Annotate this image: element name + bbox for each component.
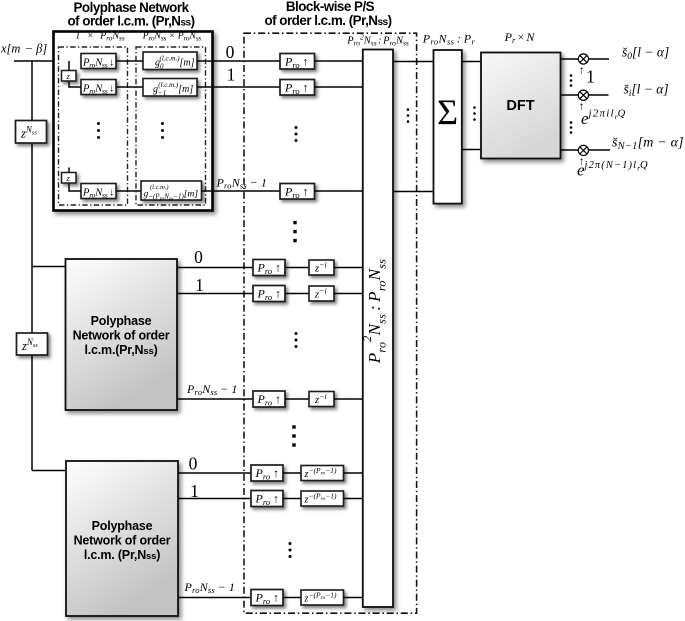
wire: net2 out row2: [177, 398, 253, 400]
decimator ProNss box row 0: [81, 54, 116, 70]
svg-text:of order l.c.m. (Pr,Nss): of order l.c.m. (Pr,Nss): [67, 14, 194, 29]
delay z^-(Pro-1) net3 row1: [301, 491, 344, 506]
dashed sub-box left (delay/decimator chain): [59, 47, 128, 205]
wire: upsampler row0 to P/S: [315, 60, 363, 62]
svg-text:ProNss− 1: ProNss− 1: [184, 580, 236, 595]
filter g0 box: [143, 52, 197, 71]
svg-text:1: 1: [586, 67, 595, 87]
svg-text:1: 1: [195, 275, 204, 295]
delay z^-i net2 row0: [309, 260, 334, 275]
svg-text:Pr×N: Pr×N: [504, 30, 536, 45]
dots: inside net1 right filters: [161, 122, 164, 139]
wire: net1 out row2 to upsampler: [202, 190, 281, 192]
dots: between net1 and net2 rows: [293, 221, 296, 242]
wire: net2 ups to delay row0: [285, 267, 309, 269]
upsampler Pro box net1 row0: [280, 54, 315, 71]
delay z^Nss box 2: [17, 333, 48, 355]
svg-text:1: 1: [190, 481, 199, 501]
svg-text:s̆0[l − α]: s̆0[l − α]: [622, 45, 669, 63]
wire: net1 out row1 to upsampler: [197, 86, 280, 88]
multiplier otimes row1: [578, 90, 588, 100]
upsampler Pro net2 row0: [253, 260, 285, 277]
delay z^Nss box 1: [16, 121, 47, 144]
wire: net2 out row1: [177, 293, 253, 295]
delay z box (row 1): [62, 71, 77, 82]
wire: upsampler row2 to P/S: [315, 190, 363, 192]
decimator ProNss box row 2: [81, 184, 116, 200]
upsampler Pro net3 row1: [251, 491, 283, 508]
wire: upsampler row1 to P/S: [315, 86, 363, 88]
wire: row 2 decimator to filter g-last: [116, 190, 141, 192]
wire: net3 delay to P/S row0: [344, 472, 363, 474]
wire: DFT out row1: [561, 94, 579, 96]
svg-text:0: 0: [226, 42, 235, 62]
wire: net3 delay to P/S row2: [344, 597, 363, 599]
dashed sub-box right (filters): [136, 47, 206, 205]
title: Block-wise P/S of order l.c.m. (Pr,Nss): [264, 0, 391, 28]
wire: net3 out row0: [178, 472, 251, 474]
svg-text:l.c.m.(Pr,Nss): l.c.m.(Pr,Nss): [84, 343, 157, 357]
dots: inside net1 left chain: [97, 122, 100, 139]
svg-text:x[m − β]: x[m − β]: [0, 42, 47, 56]
svg-text:Network of order: Network of order: [74, 534, 171, 548]
svg-text:ProNss↓: ProNss↓: [82, 188, 114, 200]
svg-text:ej2π(N−1)lrQ: ej2π(N−1)lrQ: [577, 160, 648, 180]
block: Polyphase Network 1 outer box: [54, 32, 213, 211]
svg-text:s̆i[l − α]: s̆i[l − α]: [624, 82, 669, 100]
wire: DFT out row2: [561, 149, 579, 151]
wire: net3 ups to delay row2: [283, 597, 301, 599]
delay z^-(Pro-1) net3 row2: [301, 590, 344, 605]
svg-text:(l.c.m.): (l.c.m.): [150, 184, 169, 191]
dots: DFT outputs lower: [570, 121, 573, 134]
wire: Sum to DFT top: [462, 61, 481, 63]
wire: multiplier row0 out: [589, 58, 610, 60]
dashed outer box: Block-wise P/S: [244, 33, 417, 613]
wire: net3 ups to delay row1: [283, 498, 301, 500]
svg-text:z: z: [66, 71, 71, 81]
filter g-(ProNss-1) box: [141, 181, 202, 202]
svg-text:Polyphase: Polyphase: [92, 519, 153, 533]
wire: net2 delay to P/S row0: [334, 267, 363, 269]
wire: multiplier row2 out: [589, 149, 611, 151]
svg-text:z: z: [66, 173, 71, 183]
delay z^-(Pro-1) net3 row0: [301, 466, 344, 481]
wire: z-chain stub to z box 2: [68, 168, 70, 173]
svg-text:ProNss− 1: ProNss− 1: [216, 176, 268, 191]
svg-text:ProNss↓: ProNss↓: [82, 58, 114, 70]
filter g-1 box: [143, 79, 197, 98]
dots: middle column net3 rows: [289, 542, 292, 558]
wire: net3 delay to P/S row1: [344, 498, 363, 500]
svg-text:DFT: DFT: [506, 98, 534, 114]
block: DFT: [481, 53, 561, 159]
wire: net2 delay to P/S row2: [334, 398, 363, 400]
wire: branch to network 3: [32, 470, 67, 472]
svg-text:0: 0: [189, 454, 198, 474]
svg-text:Σ: Σ: [437, 92, 458, 132]
wire: Sum to DFT bottom: [462, 149, 481, 151]
block: Polyphase Network 3: [66, 461, 178, 616]
wire: P/S to Sum top: [393, 61, 434, 63]
upsampler Pro box net1 row2: [280, 184, 315, 201]
block: P/S converter tall rect: [360, 50, 393, 608]
upsampler Pro net3 row2: [251, 590, 283, 607]
wire: z-chain stub to z box 1: [68, 61, 70, 71]
svg-text:↑: ↑: [579, 65, 585, 77]
dots: middle column net1 rows: [295, 126, 298, 142]
delay z^-i net2 row2: [309, 392, 334, 407]
wire: net2 ups to delay row2: [285, 398, 309, 400]
block: summation Sigma: [434, 50, 462, 204]
delay z^-i net2 row1: [309, 286, 334, 301]
dots: right of P/S: [407, 108, 410, 123]
upsampler Pro box net1 row1: [280, 80, 315, 97]
wire: net3 out row2: [178, 597, 251, 599]
svg-text:Network of order: Network of order: [73, 329, 170, 343]
decimator ProNss box row 1: [81, 80, 116, 96]
upsampler Pro net2 row2: [253, 391, 285, 408]
wire: net2 ups to delay row1: [285, 293, 309, 295]
dots: middle column net2 rows: [295, 332, 298, 348]
block: Polyphase Network 2: [66, 259, 178, 410]
svg-text:ProNss↓: ProNss↓: [82, 84, 114, 96]
wire: net2 out row0: [177, 267, 253, 269]
wire: net3 ups to delay row0: [283, 472, 301, 474]
title: Polyphase Network of order l.c.m. (Pr,Nss): [67, 0, 194, 29]
wire: net2 delay to P/S row1: [334, 293, 363, 295]
wire: net1 out row0 to upsampler: [197, 60, 280, 62]
delay z box (row 2): [62, 173, 77, 184]
svg-text:Pro2Nss:ProNss: Pro2Nss:ProNss: [346, 33, 409, 48]
wire: z box2 to row 2: [69, 183, 81, 191]
wire: P/S to Sum bottom: [393, 191, 434, 193]
multiplier otimes row0: [578, 54, 588, 64]
svg-text:1: 1: [227, 65, 236, 85]
wire: branch to network 2: [32, 266, 66, 268]
svg-text:of order l.c.m. (Pr,Nss): of order l.c.m. (Pr,Nss): [264, 13, 391, 28]
wire: z box1 to row 1: [69, 81, 81, 87]
wire: row 1 decimator to filter g-1: [116, 86, 143, 88]
dots: DFT outputs upper: [570, 74, 573, 87]
svg-text:l.c.m. (Pr,Nss): l.c.m. (Pr,Nss): [84, 548, 160, 562]
svg-text:Polyphase: Polyphase: [91, 314, 152, 328]
wire: multiplier row1 out: [589, 94, 609, 96]
svg-text:s̆N−1[m − α]: s̆N−1[m − α]: [612, 136, 684, 153]
svg-text:ProNss− 1: ProNss− 1: [186, 382, 238, 397]
wire: row 0 decimator to filter g0: [116, 60, 143, 62]
wire: main vertical bus: [31, 61, 33, 471]
svg-text:0: 0: [194, 247, 203, 267]
upsampler Pro net2 row1: [253, 286, 285, 303]
multiplier otimes row2: [578, 145, 588, 155]
svg-text:ej2πilrQ: ej2πilrQ: [581, 108, 626, 129]
wire: net3 out row1: [178, 498, 251, 500]
wire: input x to network 1: [14, 60, 81, 62]
dots: right of Sigma: [473, 106, 476, 121]
wire: DFT out row0: [561, 58, 579, 60]
svg-text:ProNss:Pr: ProNss:Pr: [422, 32, 476, 47]
upsampler Pro net3 row0: [251, 465, 283, 482]
dots: between net2 and net3 rows: [292, 425, 295, 446]
svg-text:Block-wise P/S: Block-wise P/S: [286, 0, 375, 14]
